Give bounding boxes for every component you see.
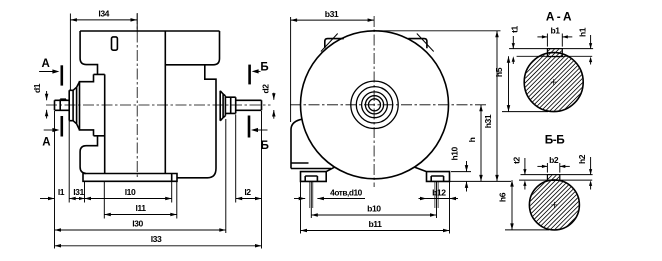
dimension b1 — [546, 34, 548, 47]
svg-text:h1: h1 — [577, 27, 587, 37]
side view: right shaft end d2 — [236, 100, 262, 110]
dimension h10 — [466, 161, 468, 172]
dimension h6 — [511, 180, 513, 230]
extension line body left face — [103, 182, 105, 219]
dimension b31 — [291, 19, 375, 21]
extension line foot right end — [176, 182, 178, 219]
dimension 4 holes d10 — [294, 198, 305, 200]
svg-text:h2: h2 — [577, 154, 587, 164]
side view: left bearing cap stepped shield — [69, 82, 79, 130]
svg-text:b11: b11 — [369, 219, 383, 229]
side view: vertical centerline — [136, 13, 138, 177]
section A-A center mark — [551, 81, 557, 83]
dimension b10 — [311, 214, 436, 216]
svg-text:l30: l30 — [132, 218, 143, 228]
extension line A-A circle bottom — [502, 111, 548, 113]
front view: right foot — [415, 167, 450, 181]
side view: right bearing cap stepped shield and hub — [220, 91, 236, 121]
front view: horizontal centerline — [290, 104, 486, 106]
dimension t1 — [512, 36, 514, 49]
svg-text:А - А: А - А — [546, 10, 572, 24]
svg-text:l31: l31 — [73, 187, 84, 197]
front view: stator circle — [301, 31, 449, 179]
front view: left foot — [301, 167, 335, 181]
side view: shaft centerline — [46, 104, 271, 106]
dimension h31 — [496, 31, 498, 182]
svg-text:d1: d1 — [32, 83, 42, 93]
svg-text:l1: l1 — [58, 187, 65, 197]
side view: foot plate — [83, 174, 177, 182]
svg-text:l11: l11 — [135, 203, 146, 213]
dimension h5 — [508, 56, 510, 111]
extension line right cap — [225, 119, 227, 233]
extension line left hole edges — [309, 182, 311, 208]
svg-text:l34: l34 — [98, 9, 109, 19]
section B-B center mark — [551, 204, 557, 206]
side view: inspection hole on top — [112, 37, 118, 50]
extension line foot bottom right — [450, 180, 512, 182]
dimension b2 — [546, 163, 548, 173]
dimension l11 — [104, 214, 177, 216]
section A-A key — [547, 49, 562, 57]
dimension t2 — [524, 158, 526, 175]
svg-text:l33: l33 — [151, 234, 162, 244]
extension line foot hole far — [171, 182, 173, 203]
svg-text:d2: d2 — [260, 84, 270, 94]
extension line for l34 — [69, 14, 71, 90]
section mark B upper — [248, 65, 251, 85]
dimension l31 — [69, 198, 84, 200]
front view: left lifting lug — [325, 39, 344, 49]
section B-B keyseat floor line — [519, 179, 592, 181]
svg-text:h31: h31 — [483, 114, 493, 128]
extension line shaft right end — [261, 111, 263, 249]
svg-text:А: А — [41, 58, 49, 70]
dimension d1 — [46, 91, 48, 100]
extension line shaft left end — [54, 111, 56, 249]
dimension h — [480, 105, 482, 182]
svg-text:Б-Б: Б-Б — [545, 133, 566, 147]
svg-text:l10: l10 — [125, 187, 136, 197]
svg-text:t2: t2 — [511, 156, 521, 163]
svg-text:t1: t1 — [510, 25, 520, 32]
svg-text:h6: h6 — [498, 192, 508, 202]
section mark B lower — [248, 116, 251, 138]
dimension l1 — [40, 198, 55, 200]
section A-A key top line — [509, 48, 593, 50]
dimension d2 — [273, 93, 275, 100]
front view: right lifting lug — [408, 39, 427, 49]
dimension l33 — [55, 245, 262, 247]
side view: left shaft end d1 — [55, 99, 70, 110]
section B-B shaft circle — [529, 180, 579, 230]
extension line right foot outer — [449, 182, 451, 234]
dimension b11 — [301, 230, 450, 232]
extension line left foot outer — [300, 182, 302, 234]
front view: terminal box — [291, 119, 331, 168]
dimension l2 — [236, 198, 262, 200]
svg-text:l2: l2 — [244, 187, 251, 197]
section B-B key — [547, 175, 559, 181]
dimension l34 — [70, 19, 137, 21]
side view: motor body outline — [80, 31, 220, 178]
svg-text:b31: b31 — [325, 9, 339, 19]
dimension l30 — [55, 229, 226, 231]
dimension b12 — [419, 198, 427, 200]
svg-text:b2: b2 — [549, 155, 559, 165]
svg-text:b1: b1 — [550, 26, 560, 36]
front view: vertical centerline — [373, 16, 375, 187]
section A-A shaft circle — [524, 53, 583, 112]
section mark A upper — [60, 65, 63, 85]
section mark A lower — [60, 116, 63, 137]
extension line left cap face — [68, 121, 70, 203]
extension line foot top right — [451, 171, 471, 173]
svg-text:А: А — [42, 137, 50, 149]
extension line terminal box left — [290, 17, 292, 122]
section B-B key top stubs — [521, 174, 548, 176]
extension line right hole edges — [434, 182, 436, 208]
svg-text:Б: Б — [260, 62, 268, 74]
svg-text:h5: h5 — [494, 67, 504, 77]
front view: shaft boss concentric circles — [351, 81, 398, 128]
dimension h1 — [590, 35, 592, 49]
svg-text:4отв,d10: 4отв,d10 — [330, 187, 362, 197]
extension line foot left — [84, 182, 86, 203]
dimension l10 — [85, 198, 172, 200]
section A-A keyseat floor line — [517, 55, 593, 57]
extension line right shaft shoulder — [235, 115, 237, 203]
extension line B-B circle bottom — [505, 229, 549, 231]
svg-text:h: h — [467, 137, 477, 142]
extension line circle top — [378, 30, 501, 32]
svg-text:b12: b12 — [432, 187, 446, 197]
extension line left hole center — [310, 182, 312, 218]
dimension h2 — [590, 157, 592, 175]
extension line right hole center — [436, 182, 438, 218]
svg-text:h10: h10 — [449, 146, 459, 160]
svg-text:b10: b10 — [367, 204, 381, 214]
